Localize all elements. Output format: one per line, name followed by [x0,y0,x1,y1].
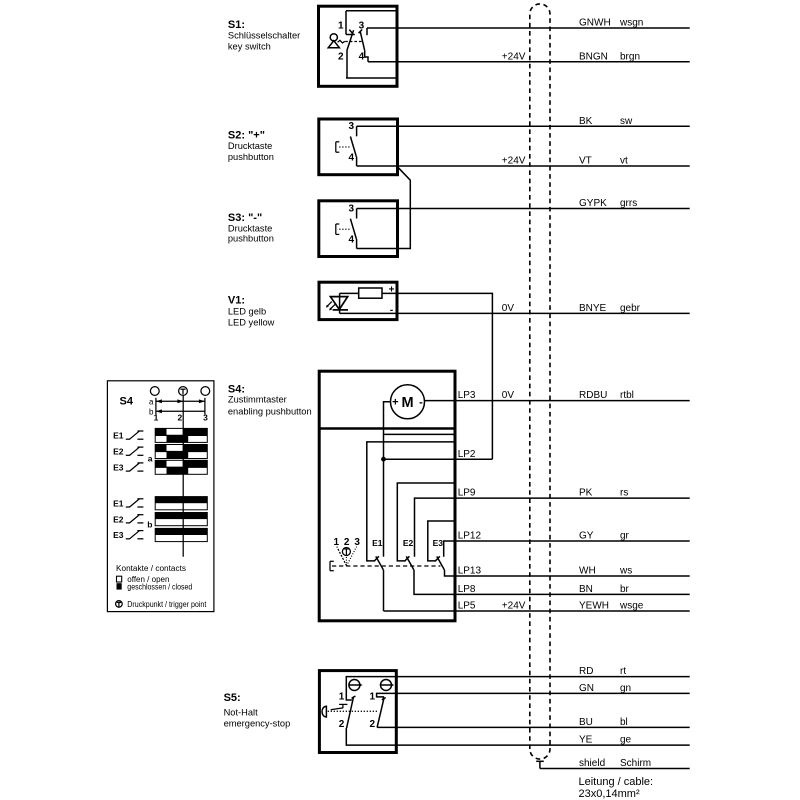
cable spec text [579,776,654,800]
contact E2 moving arm [405,556,414,569]
S5 contact B moving arm [377,698,386,728]
S5 latch symbol [339,704,347,708]
svg-text:-: - [390,305,393,316]
S3 pin 4 terminal [356,239,358,249]
svg-text:E3: E3 [113,530,124,540]
svg-text:E2: E2 [113,514,124,524]
svg-text:geschlossen / closed: geschlossen / closed [127,582,192,591]
wire V1 plus to LP2 riser [382,293,492,459]
pushbutton S2 box [319,119,398,175]
svg-text:LP9: LP9 [458,488,476,499]
svg-text:LP8: LP8 [458,584,476,595]
S5 contact A pin2 to YE [346,728,689,745]
svg-text:LP12: LP12 [458,531,482,542]
svg-text:rt: rt [620,666,626,677]
S4 panel frame [107,381,213,612]
svg-text:BK: BK [579,116,593,127]
switch S1 outer box [319,6,398,86]
svg-text:gr: gr [620,531,630,542]
S3 pin 3 terminal [356,209,358,219]
svg-text:LP2: LP2 [458,449,476,460]
label S4 title [228,383,312,416]
motor M (vibration) [391,385,425,419]
wire S1 pin3 GNWH [367,27,690,29]
switch S1 inner block [346,11,396,78]
svg-text:GN: GN [579,683,594,694]
S5 contact A positive-opening symbol [349,680,363,691]
svg-text:S2: "+": S2: "+" [228,130,265,142]
svg-text:rtbl: rtbl [620,390,634,401]
svg-text:1: 1 [334,537,340,548]
contact glyph E3a [113,463,143,473]
S1 mechanical link dashed [345,41,362,43]
wire S2 pin3 BK [357,125,690,127]
S5 plunger actuator [322,706,326,717]
V1 top rail [340,292,359,294]
S5 actuator dotted line [328,710,379,712]
svg-text:pushbutton: pushbutton [228,152,274,162]
svg-text:RD: RD [579,666,593,677]
svg-text:gebr: gebr [620,303,641,314]
svg-text:Drucktaste: Drucktaste [228,223,272,233]
svg-text:Zustimmtaster: Zustimmtaster [228,395,287,405]
svg-text:GY: GY [579,531,594,542]
svg-text:E1: E1 [113,431,124,441]
contact E3 moving arm [435,556,444,569]
svg-text:3: 3 [354,537,360,548]
panel center travel line [182,395,184,556]
wire internal D to E3 [428,521,455,561]
contact E1 moving arm [374,556,383,569]
contact bar E1 group b [155,497,207,510]
S1 key symbol [328,34,339,48]
svg-text:+: + [392,397,398,409]
panel position circle 1 [150,387,159,396]
svg-text:+24V: +24V [502,601,526,612]
svg-text:S3: "-": S3: "-" [228,212,262,224]
legend trigger symbol [116,601,123,608]
svg-text:3: 3 [203,413,208,423]
svg-text:PK: PK [579,488,593,499]
resistor (V1 series) [359,288,382,298]
contact bar E2 group a [155,445,207,459]
svg-text:0V: 0V [502,303,515,314]
label S3 title [228,212,274,244]
svg-text:4: 4 [348,235,354,246]
svg-text:gn: gn [620,683,631,694]
V1 LED emission arrows [326,302,335,311]
contact bar E1 group a [155,428,207,442]
svg-text:YEWH: YEWH [579,601,609,612]
wire V1 minus BNYE 0V [340,312,690,314]
S1 pin 1 terminal [346,11,355,35]
wire LP2 [384,458,493,460]
label S2 title [228,130,274,162]
S4 actuator dashed line [332,565,440,567]
svg-text:E3: E3 [113,463,124,473]
S5 actuator link line [331,708,343,710]
svg-text:b: b [147,520,152,530]
S1 mechanical link squiggle [338,40,345,43]
svg-text:a: a [148,454,153,464]
svg-text:enabling pushbutton: enabling pushbutton [228,407,312,417]
svg-text:4: 4 [348,152,354,163]
svg-text:BN: BN [579,584,593,595]
wire S5 contact B pin2 BU [377,726,690,728]
svg-text:WH: WH [579,566,596,577]
wire S3 pin3 GYPK [357,208,690,210]
svg-text:2: 2 [338,52,344,63]
wire S2 pin4 VT +24V [357,165,690,167]
wire shield [540,768,690,770]
wire LP9 PK to E2 [415,498,690,557]
panel dimension line b [156,409,205,413]
contact glyph E2b [113,514,143,524]
panel dimension line a [156,399,205,403]
wire S1 pin4 BNGN +24V [368,61,690,63]
svg-text:S4: S4 [120,396,134,408]
svg-text:ge: ge [620,735,632,746]
wire internal B to E1 [367,442,455,561]
svg-text:emergency-stop: emergency-stop [224,718,291,728]
S4 position fan dotted lines [337,547,357,566]
wire motor minus LP3 0V RDBU [424,400,689,402]
svg-text:+: + [389,285,395,296]
svg-text:key switch: key switch [228,42,271,52]
diode V1 LED [330,293,348,313]
LED V1 box [319,282,397,319]
svg-text:23x0,14mm²: 23x0,14mm² [579,788,640,800]
wire S5 RD to contact A pin1 [346,677,689,700]
svg-text:Kontakte / contacts: Kontakte / contacts [116,564,186,573]
svg-text:2: 2 [344,537,350,548]
S3 moving contact [350,219,356,239]
enabling switch S4 box [319,371,455,621]
svg-text:Schlüsselschalter: Schlüsselschalter [228,30,300,40]
svg-text:LP5: LP5 [458,601,476,612]
S5 contact B positive-opening symbol [381,680,395,691]
contact glyph E1a [113,431,143,441]
svg-text:3: 3 [348,203,354,214]
panel dimension ticks [156,398,205,415]
S3 actuator [336,224,350,234]
svg-text:E2: E2 [113,447,124,457]
svg-text:BU: BU [579,717,593,728]
svg-text:2: 2 [369,719,375,730]
svg-text:bl: bl [620,717,628,728]
label S5 title [224,692,291,729]
svg-text:pushbutton: pushbutton [228,234,274,244]
svg-text:2: 2 [339,719,345,730]
S1 pin 3 terminal [366,28,368,35]
svg-text:3: 3 [359,20,365,31]
svg-text:rs: rs [620,488,628,499]
svg-text:Drucktaste: Drucktaste [228,141,272,151]
svg-text:wsge: wsge [619,601,644,612]
svg-text:V1:: V1: [228,294,245,306]
svg-text:3: 3 [348,121,354,132]
legend closed square [117,583,122,589]
svg-text:4: 4 [359,52,365,63]
svg-text:E2: E2 [403,538,414,548]
svg-text:GNWH: GNWH [579,18,611,29]
svg-text:LED yellow: LED yellow [228,318,275,328]
svg-text:BNYE: BNYE [579,303,607,314]
S1 pole 3-4 moving contact [359,30,365,51]
panel position circle 2 (trigger) [179,387,188,396]
svg-text:ws: ws [619,566,632,577]
wire internal A [384,433,456,435]
wire internal C to E2 [397,483,455,561]
svg-text:shield: shield [579,758,605,769]
svg-text:E1: E1 [372,538,383,548]
S1 pin 2 terminal [346,51,348,79]
pushbutton S3 box [319,201,398,257]
svg-text:LED gelb: LED gelb [228,306,266,316]
svg-text:+24V: +24V [502,156,526,167]
svg-text:Leitung / cable:: Leitung / cable: [579,776,654,788]
svg-text:Not-Halt: Not-Halt [224,707,259,717]
svg-text:1: 1 [154,413,159,423]
svg-text:vt: vt [620,156,628,167]
S4 actuator bracket [330,561,334,570]
legend open square [117,576,122,582]
svg-text:br: br [620,584,630,595]
label V1 title [228,294,275,327]
wire LP12 GY to E3 [444,541,690,557]
svg-text:S1:: S1: [228,19,245,31]
cable sheath (dashed stadium) [530,4,550,759]
svg-text:Druckpunkt / trigger point: Druckpunkt / trigger point [127,600,207,609]
svg-text:BNGN: BNGN [579,51,608,62]
contact glyph E2a [113,447,143,457]
svg-text:0V: 0V [502,390,515,401]
svg-text:M: M [401,395,413,411]
svg-text:RDBU: RDBU [579,390,607,401]
svg-text:VT: VT [579,156,592,167]
emergency stop S5 box [319,671,396,753]
contact glyph E1b [113,498,143,508]
S2 actuator [336,142,350,152]
junction LP2/motor [381,457,386,462]
svg-text:+24V: +24V [502,51,526,62]
svg-text:sw: sw [620,116,633,127]
svg-text:1: 1 [338,20,344,31]
svg-text:GYPK: GYPK [579,198,607,209]
shield tap symbol [536,761,544,768]
E1 arm to LP5 drop [383,570,385,611]
svg-text:1: 1 [339,692,345,703]
S4 trigger point symbol [342,548,350,556]
S2 pin 4 terminal [356,157,358,166]
E2 arm to LP8 drop [414,570,690,595]
contact glyph E3b [113,530,143,540]
svg-text:wsgn: wsgn [619,18,643,29]
svg-text:2: 2 [178,413,183,423]
S1 pole 1-2 moving contact [347,30,354,51]
svg-text:S5:: S5: [224,692,241,704]
S2 pin 3 terminal [356,126,358,136]
svg-text:S4:: S4: [228,383,245,395]
svg-text:E3: E3 [433,538,444,548]
E3 arm to LP13 drop [445,570,690,576]
svg-text:a: a [149,397,154,406]
contact bar E3 group b [155,528,207,541]
S1 pin 4 terminal [365,51,368,62]
svg-text:E1: E1 [113,498,124,508]
svg-text:LP3: LP3 [458,390,476,401]
panel position circle 3 [201,387,210,396]
svg-text:YE: YE [579,735,593,746]
svg-text:-: - [419,396,423,408]
S4 divider line [319,427,455,430]
S2 moving contact [350,137,356,157]
svg-text:Schirm: Schirm [620,758,651,769]
contact bar E2 group b [155,513,207,526]
wire LP5 +24V YEWH [384,610,690,612]
svg-text:brgn: brgn [620,51,640,62]
svg-text:grrs: grrs [620,198,637,209]
svg-text:1: 1 [369,692,375,703]
label S1 title [228,19,300,52]
svg-text:LP13: LP13 [458,566,482,577]
S5 contact A moving arm [347,696,356,728]
wire motor plus drop [384,402,391,557]
wire link S2 pin4 to S3 pin4 [357,167,411,249]
wire S5 GN to contact B pin1 [377,693,690,700]
contact bar E3 group a [155,460,207,474]
